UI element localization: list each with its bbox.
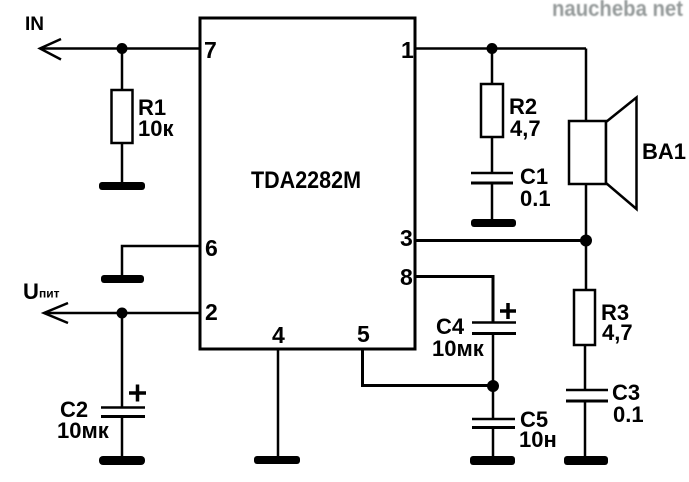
wire C5 to ground (492, 428, 495, 458)
ground under C1 (471, 219, 516, 227)
svg-text:U: U (23, 279, 39, 304)
wire C4 to junction (492, 334, 495, 387)
wire R2 to C1 (491, 137, 494, 173)
svg-text:10к: 10к (138, 116, 174, 141)
wire R3 to C3 (584, 345, 587, 390)
ground under pin 4 (254, 456, 300, 464)
IN arrow (40, 39, 61, 60)
op-amp IC U1 TDA2282M body (200, 18, 415, 349)
node junction at R1 top (117, 43, 128, 54)
svg-text:2: 2 (205, 299, 218, 325)
svg-text:IN: IN (25, 14, 44, 35)
node junction at C2 top (117, 308, 128, 319)
svg-text:6: 6 (205, 235, 218, 261)
wire junction to R2 (491, 49, 494, 85)
svg-text:0.1: 0.1 (520, 186, 551, 211)
svg-text:0.1: 0.1 (613, 402, 644, 427)
wire speaker column top (585, 49, 588, 123)
svg-text:пит: пит (39, 287, 60, 301)
wire speaker to R3 (585, 184, 588, 290)
ground under C5 (470, 456, 515, 465)
node junction C4/C5/pin5 (487, 380, 499, 392)
wire C3 to ground (584, 401, 587, 457)
Upit arrow (44, 303, 68, 323)
node junction at R2 top (487, 43, 498, 54)
wire pin 8 (415, 277, 493, 323)
wire R1 to ground (121, 143, 124, 183)
wire junction to R1 (121, 49, 124, 91)
svg-text:10мк: 10мк (57, 418, 110, 443)
svg-text:5: 5 (357, 321, 370, 347)
speaker BA1 horn (606, 98, 637, 210)
capacitor C5 (472, 418, 515, 421)
svg-text:7: 7 (204, 37, 217, 63)
ground under pin 6 (101, 275, 144, 283)
svg-text:10мк: 10мк (432, 336, 485, 361)
ground under C2 (99, 456, 145, 465)
resistor R1 (112, 90, 133, 143)
svg-text:BA1: BA1 (642, 139, 686, 164)
C2 plus sign (129, 385, 146, 402)
wire pin 1 to speaker column (415, 47, 586, 50)
wire pin 5 (363, 349, 494, 386)
capacitor C4 (472, 321, 516, 324)
wire junction to C2 (121, 313, 124, 408)
wire junction to C5 (492, 386, 495, 419)
ground under C3 (564, 456, 608, 465)
capacitor C2 (101, 406, 145, 409)
svg-text:4: 4 (272, 322, 285, 348)
wire Upit to pin 2 (44, 312, 200, 315)
wire pin 3 (415, 239, 586, 242)
wire pin 4 to ground (277, 349, 280, 457)
wire pin 6 (122, 246, 200, 275)
wire C1 to ground (491, 183, 494, 220)
svg-text:naucheba net: naucheba net (552, 0, 684, 21)
svg-text:TDA2282M: TDA2282M (251, 167, 361, 194)
svg-text:4,7: 4,7 (602, 320, 633, 345)
ground under R1 (99, 182, 145, 190)
resistor R2 (481, 84, 503, 137)
svg-text:10н: 10н (519, 427, 557, 452)
C4 plus sign (500, 303, 516, 319)
wire C2 to ground (121, 417, 124, 458)
svg-text:8: 8 (400, 264, 413, 290)
capacitor C3 (566, 389, 608, 392)
svg-text:3: 3 (400, 225, 413, 251)
resistor R3 (574, 290, 595, 345)
speaker BA1 body (569, 121, 606, 184)
svg-text:4,7: 4,7 (510, 116, 541, 141)
wire IN to pin 7 (40, 47, 200, 50)
node junction pin3/speaker (580, 235, 592, 247)
svg-text:1: 1 (401, 37, 414, 63)
capacitor C1 (471, 172, 513, 175)
